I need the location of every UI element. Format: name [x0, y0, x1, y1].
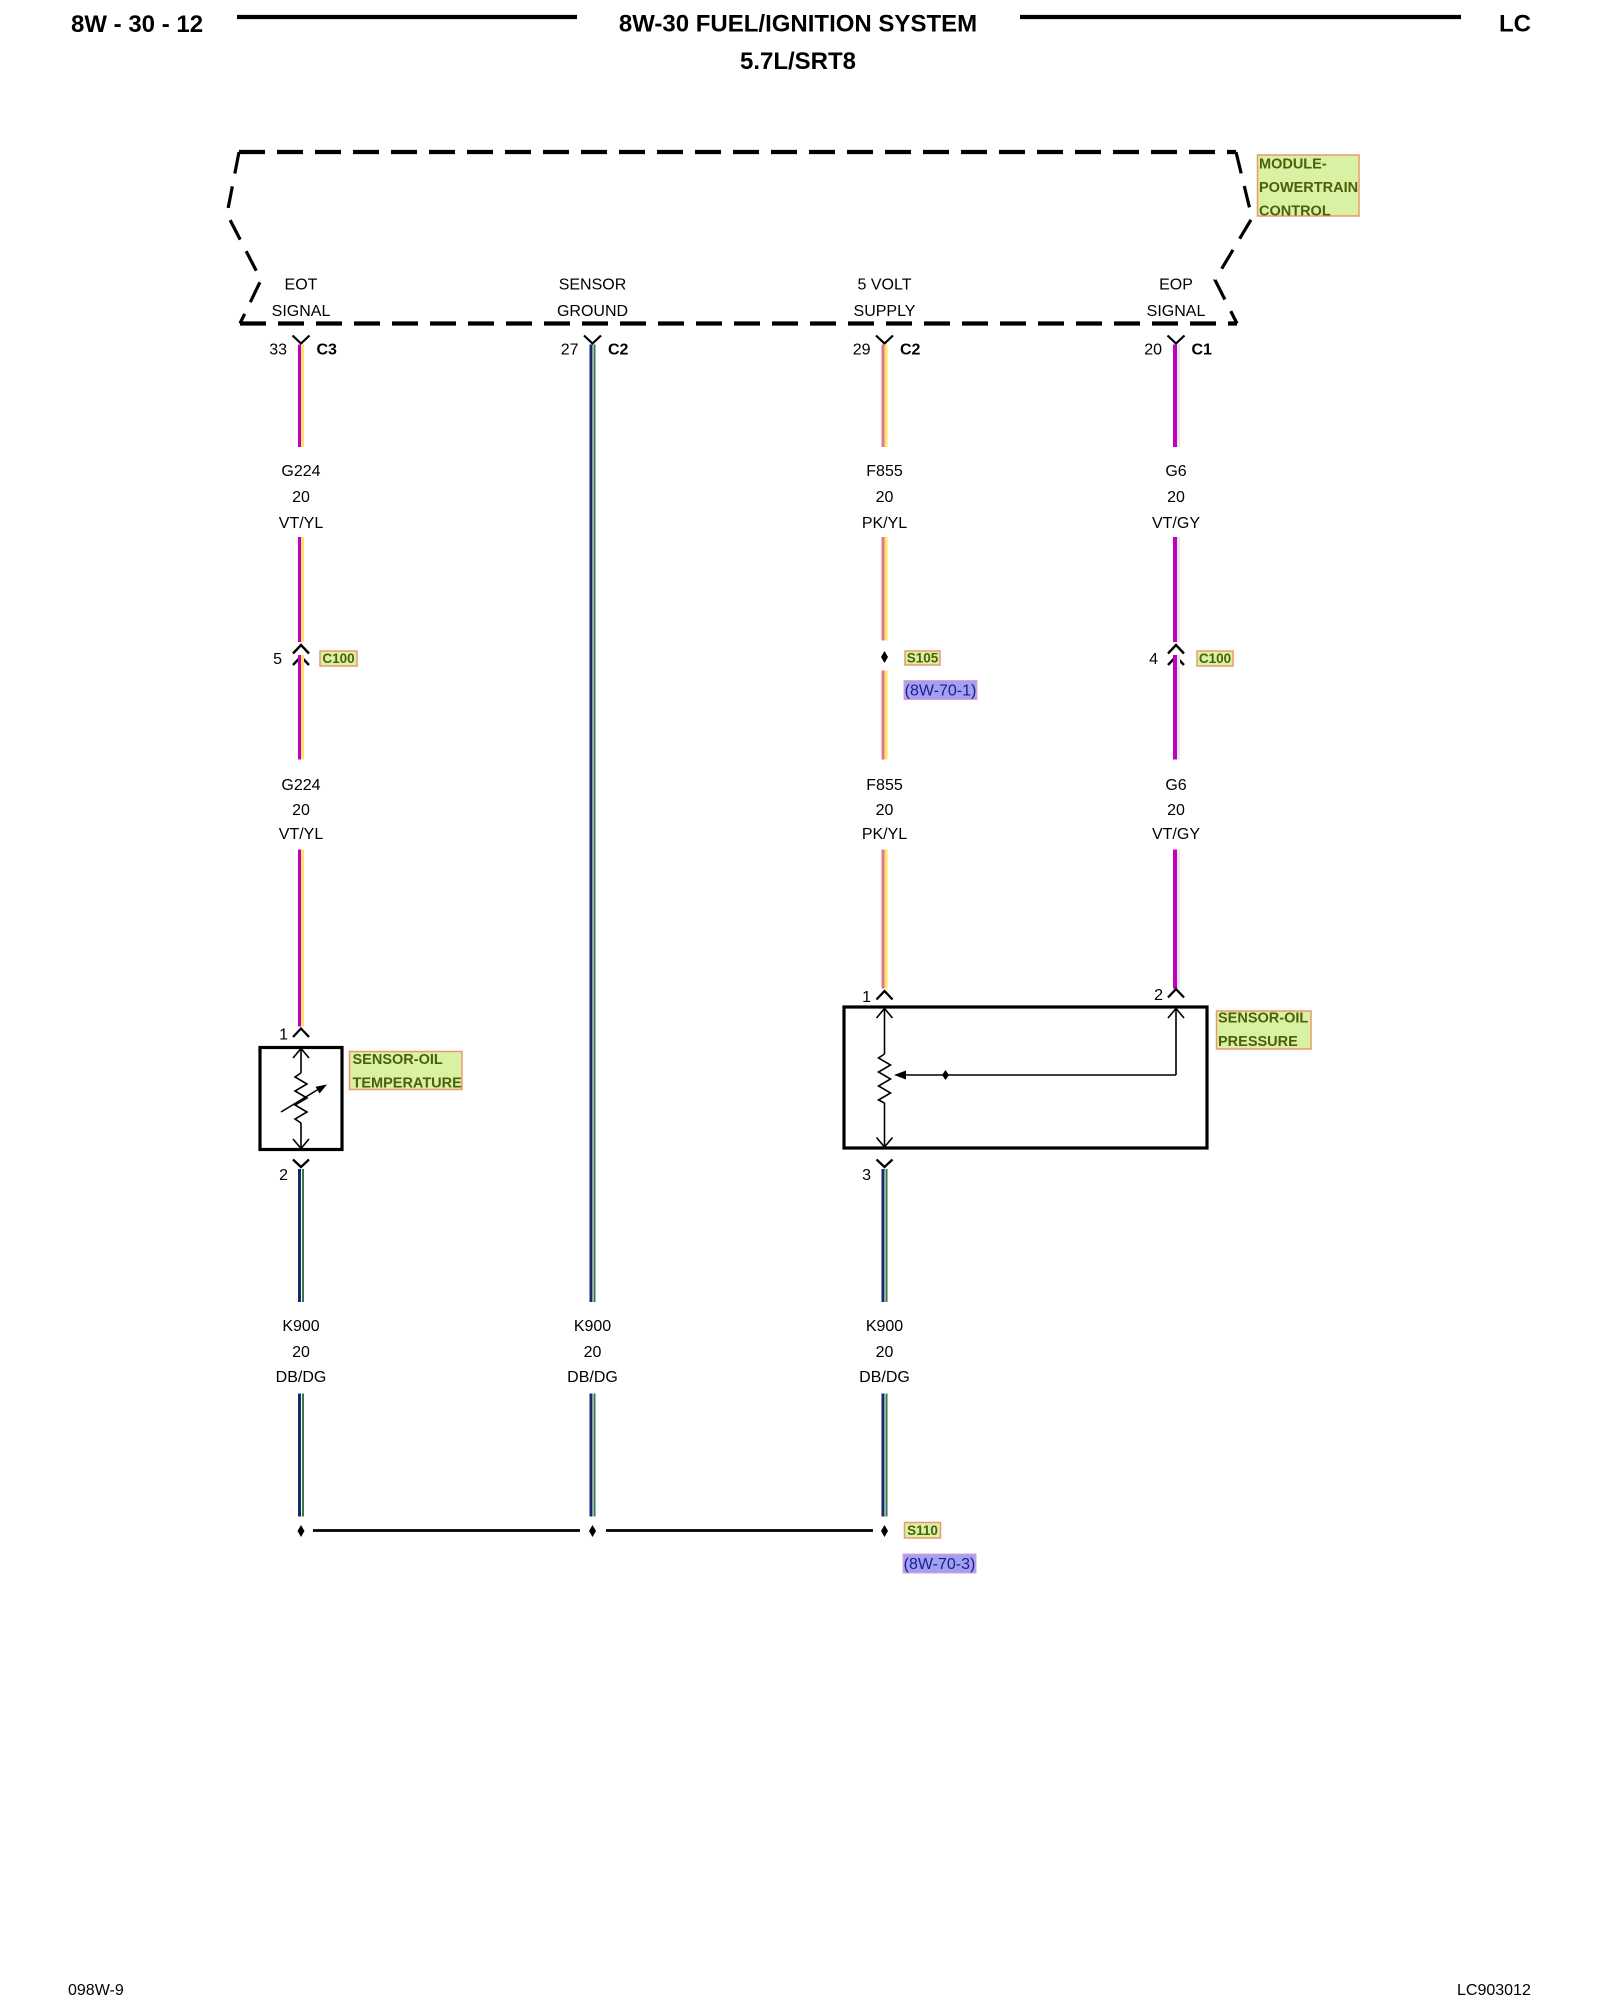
connector label C100 (left): [320, 651, 357, 666]
wire label G6 20 VT/GY (lower): [1152, 777, 1200, 843]
pin 29 connector C2: [853, 336, 921, 359]
svg-text:20: 20: [292, 802, 310, 819]
sensor pin 2 connector: [1154, 987, 1184, 1004]
svg-text:(8W-70-1): (8W-70-1): [905, 683, 977, 700]
wire G6 VT/GY segment 4: [1175, 850, 1179, 989]
svg-text:27: 27: [561, 341, 579, 358]
pin 27 connector C2: [561, 336, 629, 359]
splice label S110: [905, 1523, 941, 1539]
svg-text:20: 20: [1167, 489, 1185, 506]
svg-text:(8W-70-3): (8W-70-3): [904, 1556, 976, 1573]
wire G6 VT/GY segment 2: [1175, 537, 1179, 642]
sensor pin 1 connector: [862, 989, 892, 1006]
svg-text:K900: K900: [282, 1318, 319, 1335]
pin function EOT SIGNAL: [272, 276, 331, 320]
svg-text:SENSOR-OIL: SENSOR-OIL: [1218, 1011, 1308, 1027]
svg-text:20: 20: [876, 802, 894, 819]
in-line connector C100 pin 4: [1149, 645, 1184, 668]
svg-text:C1: C1: [1192, 341, 1213, 358]
svg-text:C2: C2: [608, 341, 629, 358]
svg-text:VT/GY: VT/GY: [1152, 826, 1200, 843]
wire G6 VT/GY segment 3: [1175, 655, 1179, 760]
wire label F855 20 PK/YL (upper): [862, 463, 907, 532]
svg-text:8W - 30 - 12: 8W - 30 - 12: [71, 11, 203, 38]
svg-text:20: 20: [292, 489, 310, 506]
sensor pin 3 connector: [862, 1160, 892, 1185]
svg-text:PK/YL: PK/YL: [862, 515, 907, 532]
svg-text:2: 2: [279, 1167, 288, 1184]
wire K900 DB/DG segment (column 1): [300, 1169, 304, 1302]
splice S105 diamond: [881, 651, 888, 663]
svg-text:PK/YL: PK/YL: [862, 826, 907, 843]
svg-text:K900: K900: [866, 1318, 903, 1335]
svg-text:2: 2: [1154, 987, 1163, 1004]
wire label K900 20 DB/DG (column 2): [567, 1318, 618, 1386]
potentiometer wiper: [894, 1009, 1184, 1080]
svg-text:SENSOR-OIL: SENSOR-OIL: [353, 1052, 443, 1068]
svg-text:G224: G224: [281, 777, 320, 794]
svg-text:5 VOLT: 5 VOLT: [858, 276, 912, 293]
svg-text:S110: S110: [907, 1523, 938, 1538]
header code LC: [1499, 11, 1531, 38]
module bottom dashed boundary: [240, 321, 1237, 325]
component label SENSOR-OIL PRESSURE: [1217, 1011, 1312, 1051]
svg-text:5: 5: [273, 651, 282, 668]
wire G224 VT/YL segment 1: [300, 345, 303, 448]
svg-text:VT/YL: VT/YL: [279, 515, 324, 532]
splice reference (8W-70-3): [903, 1554, 976, 1573]
wire label G224 20 VT/YL (upper): [279, 463, 324, 532]
svg-text:SUPPLY: SUPPLY: [854, 303, 916, 320]
wire G224 VT/YL segment 4: [300, 850, 303, 1027]
header title: [619, 11, 977, 38]
svg-text:20: 20: [1167, 802, 1185, 819]
svg-text:F855: F855: [866, 777, 903, 794]
connector label C100 (right): [1197, 651, 1233, 666]
svg-text:S105: S105: [907, 651, 939, 666]
svg-text:20: 20: [1144, 341, 1162, 358]
svg-text:LC903012: LC903012: [1457, 1982, 1531, 1999]
splice bus wire left: [313, 1529, 580, 1532]
svg-text:29: 29: [853, 341, 871, 358]
splice label S105: [905, 651, 940, 666]
pin function EOP SIGNAL: [1147, 276, 1206, 320]
splice node diamond (column 3): [881, 1525, 888, 1537]
svg-text:CONTROL: CONTROL: [1259, 204, 1331, 220]
module right dashed edge: [1215, 152, 1252, 324]
svg-text:SENSOR: SENSOR: [559, 276, 627, 293]
svg-text:TEMPERATURE: TEMPERATURE: [353, 1076, 463, 1092]
svg-text:K900: K900: [574, 1318, 611, 1335]
sensor pin 2 connector: [279, 1160, 309, 1185]
svg-text:EOT: EOT: [285, 276, 318, 293]
svg-text:C3: C3: [317, 341, 338, 358]
svg-text:PRESSURE: PRESSURE: [1218, 1034, 1298, 1050]
wire K900 DB/DG segment 2 (column 2): [591, 1394, 595, 1517]
wire label K900 20 DB/DG (column 3): [859, 1318, 910, 1386]
svg-text:VT/GY: VT/GY: [1152, 515, 1200, 532]
splice node diamond (column 1): [298, 1525, 305, 1537]
wire F855 PK/YL segment 4: [883, 850, 886, 989]
header subtitle: [740, 48, 856, 75]
wiper diamond node: [942, 1070, 949, 1080]
svg-text:1: 1: [862, 989, 871, 1006]
svg-text:20: 20: [876, 1344, 894, 1361]
svg-text:DB/DG: DB/DG: [276, 1369, 327, 1386]
svg-text:4: 4: [1149, 651, 1158, 668]
svg-text:F855: F855: [866, 463, 903, 480]
svg-text:DB/DG: DB/DG: [567, 1369, 618, 1386]
wire label K900 20 DB/DG (column 1): [276, 1318, 327, 1386]
svg-text:SIGNAL: SIGNAL: [1147, 303, 1206, 320]
svg-text:EOP: EOP: [1159, 276, 1193, 293]
footer right code: [1457, 1982, 1531, 1999]
module label MODULE-POWERTRAIN CONTROL: [1258, 155, 1360, 220]
component label SENSOR-OIL TEMPERATURE: [350, 1052, 463, 1092]
module top dashed boundary: [239, 150, 1236, 154]
module left dashed edge: [227, 152, 261, 324]
pin function SENSOR GROUND: [557, 276, 628, 320]
svg-text:DB/DG: DB/DG: [859, 1369, 910, 1386]
svg-text:SIGNAL: SIGNAL: [272, 303, 331, 320]
svg-text:GROUND: GROUND: [557, 303, 628, 320]
pin 20 connector C1: [1144, 336, 1212, 359]
svg-text:C2: C2: [900, 341, 921, 358]
svg-text:G6: G6: [1165, 777, 1186, 794]
svg-text:1: 1: [279, 1027, 288, 1044]
svg-text:20: 20: [584, 1344, 602, 1361]
svg-text:098W-9: 098W-9: [68, 1982, 124, 1999]
splice node diamond (column 2): [589, 1525, 596, 1537]
wire K900 DB/DG segment 2 (column 3): [883, 1394, 887, 1517]
wire K900 DB/DG segment 2 (column 1): [300, 1394, 304, 1517]
svg-text:33: 33: [269, 341, 287, 358]
svg-text:8W-30 FUEL/IGNITION SYSTEM: 8W-30 FUEL/IGNITION SYSTEM: [619, 11, 977, 38]
header rule right: [1020, 15, 1461, 19]
thermistor element: [293, 1049, 309, 1149]
pin function 5 VOLT SUPPLY: [854, 276, 916, 320]
svg-text:G224: G224: [281, 463, 320, 480]
wire G224 VT/YL segment 2: [300, 537, 303, 642]
svg-text:20: 20: [876, 489, 894, 506]
svg-text:VT/YL: VT/YL: [279, 826, 324, 843]
svg-text:G6: G6: [1165, 463, 1186, 480]
svg-text:C100: C100: [1199, 651, 1231, 666]
splice bus wire right: [606, 1529, 873, 1532]
wire label G6 20 VT/GY (upper): [1152, 463, 1200, 532]
footer left code: [68, 1982, 124, 1999]
svg-text:20: 20: [292, 1344, 310, 1361]
wire G224 VT/YL segment 3: [300, 655, 303, 760]
wire F855 PK/YL segment 2: [883, 537, 886, 641]
wire label F855 20 PK/YL (lower): [862, 777, 907, 843]
header rule left: [237, 15, 577, 19]
wire K900 DB/DG segment (column 3): [883, 1169, 887, 1302]
header page number: [71, 11, 203, 38]
sensor-oil temperature box: [260, 1048, 342, 1150]
wire label G224 20 VT/YL (lower): [279, 777, 324, 843]
pin 33 connector C3: [269, 336, 337, 359]
potentiometer element: [877, 1009, 893, 1148]
wire K900 DB/DG segment 1: [591, 345, 595, 1303]
splice reference (8W-70-1): [904, 681, 977, 700]
in-line connector C100 pin 5: [273, 645, 309, 668]
sensor pin 1 connector: [279, 1027, 309, 1044]
wire G6 VT/GY segment 1: [1175, 345, 1179, 448]
wire F855 PK/YL segment 1: [883, 345, 886, 448]
svg-text:MODULE-: MODULE-: [1259, 157, 1327, 173]
thermistor diagonal arrow: [281, 1085, 327, 1113]
wire F855 PK/YL segment 3: [883, 671, 886, 760]
sensor-oil pressure box: [844, 1007, 1207, 1148]
svg-text:3: 3: [862, 1167, 871, 1184]
svg-text:LC: LC: [1499, 11, 1531, 38]
svg-text:POWERTRAIN: POWERTRAIN: [1259, 180, 1358, 196]
svg-text:C100: C100: [322, 651, 354, 666]
svg-text:5.7L/SRT8: 5.7L/SRT8: [740, 48, 856, 75]
